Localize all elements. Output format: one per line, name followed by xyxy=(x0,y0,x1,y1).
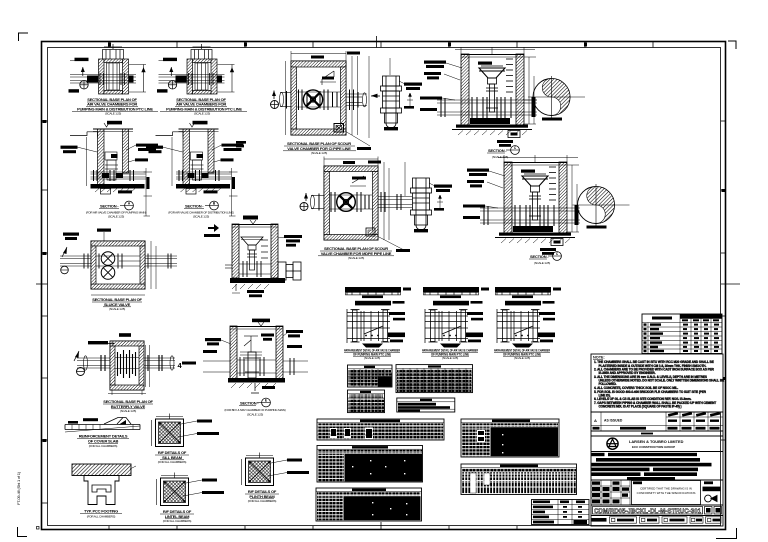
pipe through chamber xyxy=(280,92,538,107)
svg-text:(FOR ALL CHAMBERS): (FOR ALL CHAMBERS) xyxy=(163,519,192,523)
big table BT4 (black schedule right) xyxy=(461,419,559,457)
arrangement detail B xyxy=(423,287,489,348)
funnel air valve xyxy=(479,68,505,78)
sluice valve assembly right of CI chamber xyxy=(381,76,423,130)
scour valve chamber plan (CI pipe) xyxy=(271,51,538,138)
svg-text:(SCALE 1:25): (SCALE 1:25) xyxy=(311,151,327,155)
air valve chamber plan D2 xyxy=(157,44,235,94)
arrangement detail A xyxy=(345,287,411,348)
pipe through xyxy=(311,195,413,209)
table T1 xyxy=(348,365,393,387)
scour valve chamber plan (MS pipe) xyxy=(300,157,412,241)
scour chamber CI caption xyxy=(283,131,371,155)
R/F square 3 caption xyxy=(245,489,279,503)
table T3 xyxy=(348,390,385,413)
big table BT3 (black schedule 2) xyxy=(316,488,422,521)
R/F square 2 caption xyxy=(160,509,194,523)
R/F square 1 caption xyxy=(155,450,189,464)
svg-text:ECC CONSTRUCTION GROUP: ECC CONSTRUCTION GROUP xyxy=(632,445,675,449)
left labels xyxy=(424,61,446,64)
company logo xyxy=(607,438,684,449)
svg-text:(SCALE 1:25): (SCALE 1:25) xyxy=(492,155,508,159)
frame xyxy=(351,310,390,343)
level dashes xyxy=(506,59,513,92)
right labels xyxy=(284,235,302,238)
air valve chamber section S1 xyxy=(61,121,159,216)
corner mark top-left xyxy=(19,33,29,41)
svg-text:A: A xyxy=(594,418,597,423)
svg-text:SECTION -: SECTION - xyxy=(240,401,259,406)
cover slab reinforcement detail xyxy=(65,418,140,433)
corner mark bottom-left xyxy=(18,527,40,537)
arrangement detail C xyxy=(495,287,561,348)
drawing number row xyxy=(593,507,722,515)
R/F detail square 1 (top beam) xyxy=(152,414,220,447)
gate valve chamber plan (left mid) xyxy=(60,229,177,296)
pond air valve section (center) xyxy=(204,141,302,297)
big section T2 (mid right) xyxy=(463,155,580,255)
dims xyxy=(324,157,405,241)
air valve chamber section S2 xyxy=(146,121,244,216)
table T2 xyxy=(396,365,473,393)
svg-text:SECTION -: SECTION - xyxy=(488,148,507,153)
butterfly valve chamber plan xyxy=(74,333,183,395)
svg-text:(SCALE 1:25): (SCALE 1:25) xyxy=(120,409,136,413)
marks below xyxy=(251,383,259,393)
arrangement A caption xyxy=(344,349,400,360)
svg-text:FT-09-46 (Sht 1 of 1): FT-09-46 (Sht 1 of 1) xyxy=(16,471,21,505)
cover slab caption xyxy=(77,434,129,448)
svg-text:(FOR ALL CHAMBERS): (FOR ALL CHAMBERS) xyxy=(248,499,277,503)
section T2 caption xyxy=(529,252,561,265)
butterfly valve caption xyxy=(103,399,154,413)
inlet marker xyxy=(61,266,69,274)
flow arrow right xyxy=(371,94,378,98)
R/F detail square 3 (plinth beam) xyxy=(242,453,310,486)
horizontal pipe through xyxy=(91,172,147,179)
svg-text:(SCALE 1:25): (SCALE 1:25) xyxy=(194,112,210,116)
bottom slab xyxy=(470,118,510,124)
svg-text:(SCALE 1:25): (SCALE 1:25) xyxy=(109,307,125,311)
dims xyxy=(91,241,156,295)
R/F detail square 2 (lintel beam) xyxy=(157,473,225,506)
corner mark bottom-right xyxy=(716,528,737,539)
big table BT5 (striped schedule) xyxy=(461,464,577,495)
svg-text:AS ISSUED: AS ISSUED xyxy=(604,419,623,423)
thrust block circle T1 xyxy=(528,76,585,121)
flow marker left xyxy=(272,91,276,97)
svg-text:OF COVER SLAB: OF COVER SLAB xyxy=(88,438,119,443)
funnel xyxy=(241,237,263,245)
left labels xyxy=(205,338,221,341)
air valve chamber plan D1 caption xyxy=(72,97,158,116)
sump xyxy=(366,228,375,236)
svg-text:(SCALE 1:25): (SCALE 1:25) xyxy=(364,356,380,360)
divider dash xyxy=(641,433,653,435)
revision row xyxy=(591,412,723,431)
big table BT1 (bar bending schedule top) xyxy=(317,419,444,440)
svg-text:CDM/RD05-JBCKL-DL-M-STRUC-301: CDM/RD05-JBCKL-DL-M-STRUC-301 xyxy=(594,508,701,515)
ladder symbol xyxy=(320,71,336,85)
air valve chamber section S1 caption xyxy=(86,201,146,218)
svg-text:SECTION -: SECTION - xyxy=(185,204,204,209)
discipline status table xyxy=(532,500,590,525)
valve wheel xyxy=(303,90,322,109)
arrangement C caption xyxy=(494,349,550,360)
gate valve caption xyxy=(92,297,143,311)
certification box xyxy=(632,481,701,505)
arrangement B caption xyxy=(422,349,478,360)
svg-text:5. FOR SOIL IS GOOD 400-0-400: 5. FOR SOIL IS GOOD 400-0-400 BRICKOR FL… xyxy=(594,390,707,394)
right labels xyxy=(389,312,405,315)
thrust block circle T2 xyxy=(573,184,630,229)
sluice valve assembly (MS row) xyxy=(411,178,453,232)
materials table (top right) xyxy=(642,314,722,354)
svg-text:(SCALE 1:25): (SCALE 1:25) xyxy=(247,412,263,416)
pipes xyxy=(60,256,177,266)
valve stem xyxy=(245,352,259,378)
dim right xyxy=(524,57,536,124)
butterfly valve section xyxy=(182,319,308,393)
svg-text:E: E xyxy=(265,399,267,403)
svg-text:(FOR ALL CHAMBERS): (FOR ALL CHAMBERS) xyxy=(158,460,187,464)
svg-text:(SCALE 1:25): (SCALE 1:25) xyxy=(348,256,364,260)
air valve chamber big section T1 (top right) xyxy=(420,47,537,147)
title block frame xyxy=(591,412,723,526)
svg-text:(SCALE 1:25): (SCALE 1:25) xyxy=(105,112,121,116)
bottom slab xyxy=(230,278,285,283)
table T4 xyxy=(397,398,455,412)
title block right column xyxy=(703,481,721,502)
drawn-for row xyxy=(592,517,722,523)
svg-text:(SCALE 1:25): (SCALE 1:25) xyxy=(193,215,209,219)
svg-text:CONCRETE MIX. IS AT PLACE (SQU: CONCRETE MIX. IS AT PLACE (SQUARE OF PAS… xyxy=(599,405,682,409)
svg-text:(FOR ALL CHAMBERS): (FOR ALL CHAMBERS) xyxy=(89,444,118,448)
pipes through bottom xyxy=(437,100,537,115)
flow marker xyxy=(304,193,308,199)
svg-text:SECTION -: SECTION - xyxy=(100,204,119,209)
butterfly section caption xyxy=(224,398,285,416)
svg-text:LARSEN & TOUBRO LIMITED: LARSEN & TOUBRO LIMITED xyxy=(629,439,684,444)
svg-text:UNLESS OTHERWISE NOTED. DO NOT: UNLESS OTHERWISE NOTED. DO NOT SCALE. ON… xyxy=(599,379,725,383)
section T1 caption xyxy=(487,146,519,159)
svg-text:CONFORMITY WITH THE SPECIFICAT: CONFORMITY WITH THE SPECIFICATIONS xyxy=(637,491,696,495)
right labels xyxy=(286,330,303,333)
project title bars xyxy=(592,453,712,480)
air valve chamber section S2 caption xyxy=(168,201,234,218)
top dimension line xyxy=(286,51,391,138)
notes block xyxy=(591,354,724,412)
svg-text:TYP. PCC FOOTING: TYP. PCC FOOTING xyxy=(84,509,118,514)
typical PCC footing detail xyxy=(72,464,136,505)
air valve chamber plan D2 caption xyxy=(160,97,247,116)
scour chamber MS caption xyxy=(318,236,410,260)
svg-text:(FOR BFV & NRV CHAMBER OF PUMP: (FOR BFV & NRV CHAMBER OF PUMPING MAIN) xyxy=(224,408,285,412)
corner mark top-right xyxy=(728,41,736,49)
PCC footing caption xyxy=(80,509,122,519)
svg-text:(SCALE 1:25): (SCALE 1:25) xyxy=(108,215,124,219)
svg-text:(FOR ALL CHAMBERS): (FOR ALL CHAMBERS) xyxy=(87,514,116,518)
sump box xyxy=(334,124,344,133)
air valve chamber plan D1 xyxy=(69,44,147,94)
stacked pipe right xyxy=(278,262,301,280)
pipes bottom xyxy=(225,264,271,274)
big table BT2 (black schedule) xyxy=(317,446,423,483)
pipes xyxy=(203,360,308,373)
twin valves xyxy=(101,252,115,266)
valve wheel xyxy=(337,193,356,212)
svg-text:NOTE:: NOTE: xyxy=(593,356,605,360)
small box below xyxy=(508,131,520,138)
approval grid xyxy=(591,480,630,505)
